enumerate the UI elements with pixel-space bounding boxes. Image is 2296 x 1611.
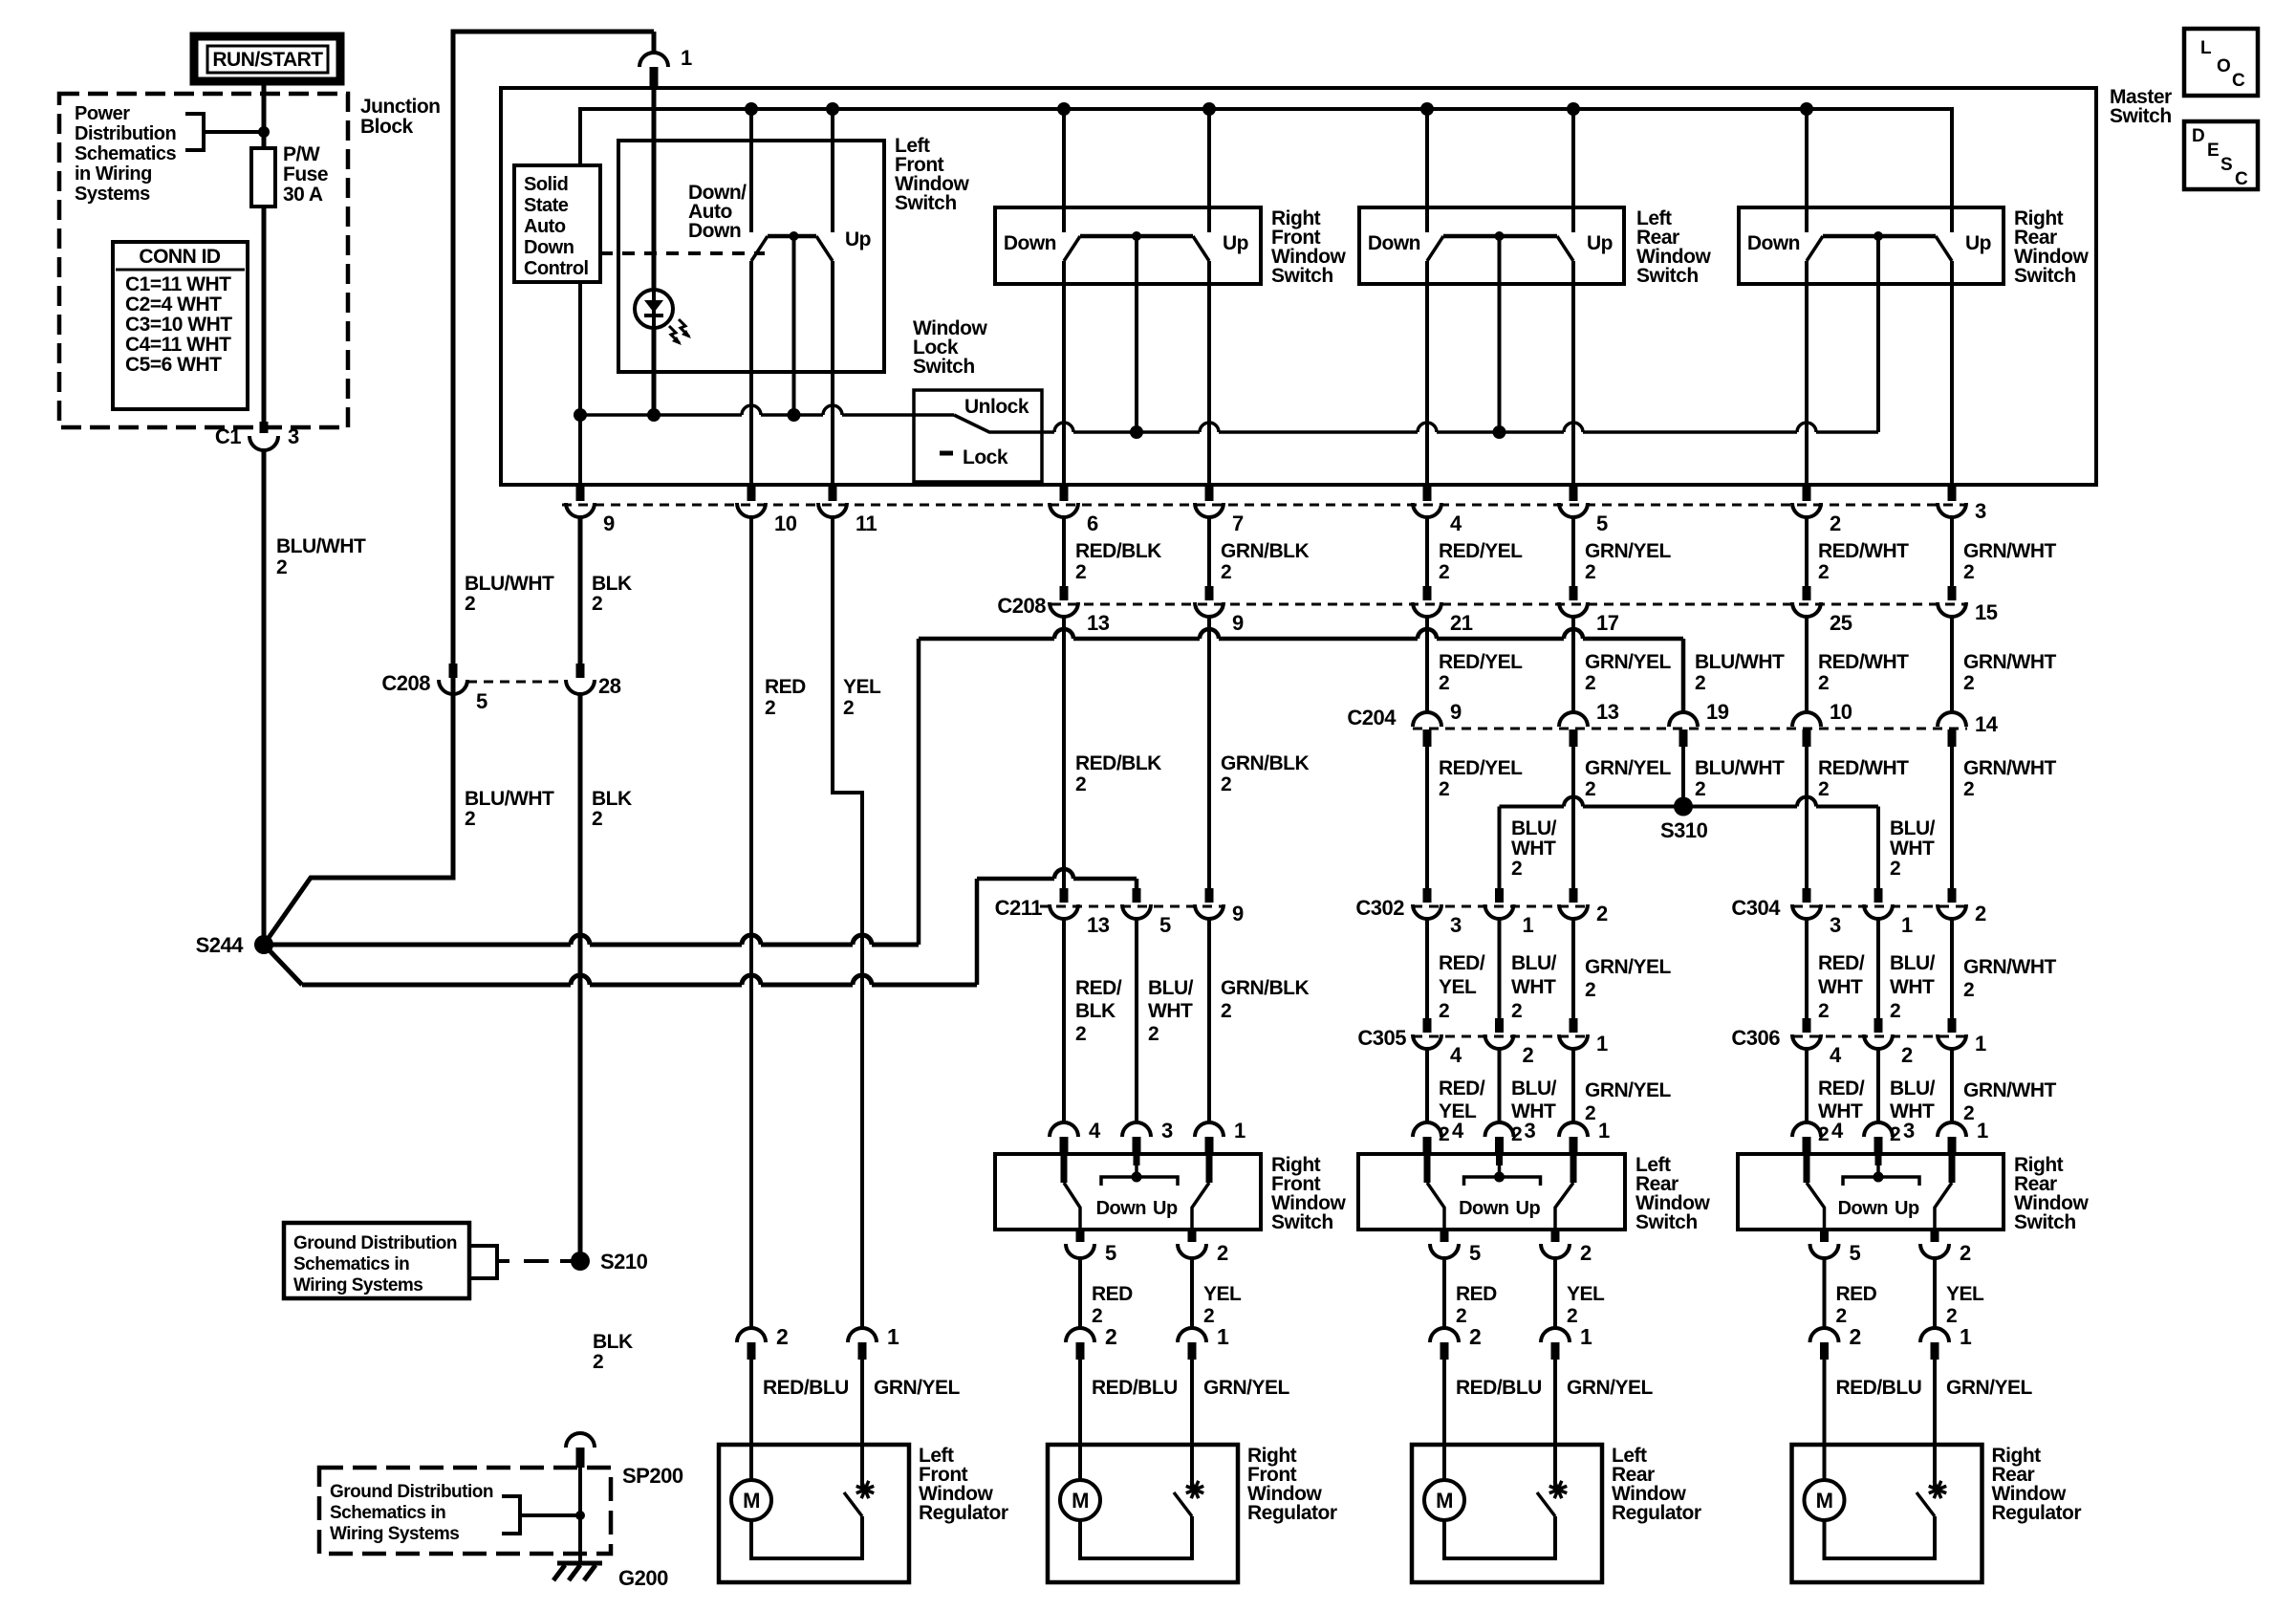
- right front regulator connector pin 2: [1066, 1328, 1094, 1342]
- svg-text:RED/BLU: RED/BLU: [1092, 1377, 1178, 1399]
- wire to C208: [1571, 516, 1575, 586]
- svg-text:2: 2: [765, 697, 775, 719]
- svg-text:2: 2: [592, 808, 602, 830]
- wire BLU/WHT C208-5 to S244: [451, 693, 456, 878]
- right front window regulator box: [1048, 1445, 1238, 1582]
- wire RED/BLK C208-13 to C211-13: [1062, 616, 1066, 888]
- svg-text:2: 2: [1221, 1000, 1231, 1022]
- svg-text:2: 2: [1439, 778, 1449, 800]
- svg-text:GRN/YEL: GRN/YEL: [1585, 651, 1672, 673]
- svg-text:C3=10 WHT: C3=10 WHT: [125, 314, 232, 336]
- wire between C302/C304 and C305/C306: [1425, 918, 1429, 1018]
- svg-text:M: M: [1436, 1489, 1453, 1513]
- svg-text:RED: RED: [765, 676, 806, 698]
- wire GRN/BLK C208-9 to C211-9: [1207, 616, 1211, 888]
- right rear window switch common bracket: [1875, 1154, 1882, 1165]
- svg-text:S210: S210: [600, 1250, 648, 1274]
- svg-text:2: 2: [1901, 1043, 1913, 1067]
- window lock switch lock contact: [940, 451, 953, 456]
- wire S310 splice bus: [1500, 805, 1565, 809]
- connector C204: [1413, 728, 1967, 730]
- left rear window switch down blade: [1424, 1154, 1431, 1183]
- svg-text:GRN/YEL: GRN/YEL: [1567, 1377, 1654, 1399]
- wire GRN/YEL C208-17 to C204-13: [1571, 616, 1575, 712]
- svg-text:Down: Down: [1747, 232, 1800, 254]
- wire RED 2: [1823, 1257, 1827, 1330]
- junction node on fuse feed: [258, 126, 270, 138]
- right rear regulator motor feed: [1823, 1360, 1827, 1480]
- svg-text:Schematics: Schematics: [75, 143, 177, 164]
- svg-text:C302: C302: [1355, 896, 1404, 920]
- svg-text:Down: Down: [1004, 232, 1056, 254]
- svg-text:C4=11 WHT: C4=11 WHT: [125, 334, 231, 356]
- wire RUN/START to fuse: [262, 81, 267, 150]
- svg-text:S: S: [2220, 155, 2232, 175]
- left rear window switch box: [1359, 207, 1624, 284]
- LED emission arrows: [669, 326, 680, 343]
- left rear window switch common bracket: [1496, 1154, 1503, 1165]
- master switch pin 6: [1060, 485, 1069, 501]
- svg-text:Down: Down: [1459, 1198, 1508, 1219]
- master switch box: [501, 88, 2096, 485]
- svg-text:2: 2: [1511, 858, 1522, 880]
- ground distribution dashed box: [319, 1468, 611, 1554]
- svg-text:1: 1: [1596, 1032, 1608, 1056]
- svg-text:1: 1: [1901, 913, 1913, 937]
- svg-text:C1: C1: [215, 425, 241, 448]
- right front window switch connector pin 3: [1135, 918, 1138, 1123]
- svg-text:5: 5: [1159, 913, 1171, 937]
- svg-text:17: 17: [1596, 611, 1619, 635]
- svg-text:2: 2: [1585, 672, 1595, 694]
- master switch pin 10: [747, 485, 756, 501]
- svg-text:2: 2: [1963, 979, 1974, 1001]
- wire BLU/WHT C204-19 to S310: [1681, 747, 1685, 807]
- svg-text:Lock: Lock: [963, 446, 1008, 468]
- left front window switch rocker: [745, 102, 758, 116]
- connector SP200: [566, 1433, 595, 1448]
- svg-text:C208: C208: [381, 671, 430, 695]
- left rear window switch connector pin 4: [1425, 1048, 1429, 1123]
- svg-text:C304: C304: [1731, 896, 1781, 920]
- svg-text:2: 2: [593, 1351, 603, 1373]
- svg-text:2: 2: [1960, 1241, 1971, 1265]
- wire to C208: [1805, 516, 1809, 586]
- svg-text:2: 2: [1963, 1102, 1974, 1124]
- wire GRN/YEL C204-13 down to C302-2: [1571, 747, 1575, 888]
- connector C304: [1793, 905, 1965, 908]
- svg-text:1: 1: [887, 1324, 899, 1349]
- svg-text:2: 2: [1567, 1305, 1577, 1327]
- svg-text:GRN/BLK: GRN/BLK: [1221, 540, 1309, 562]
- svg-text:GRN/YEL: GRN/YEL: [1585, 757, 1672, 779]
- right front regulator connector pin 1: [1178, 1328, 1206, 1342]
- svg-text:7: 7: [1232, 512, 1244, 535]
- svg-text:2: 2: [1818, 1000, 1829, 1022]
- svg-text:2: 2: [1596, 902, 1608, 925]
- svg-text:RED/: RED/: [1439, 952, 1485, 974]
- svg-text:Switch: Switch: [2014, 265, 2076, 287]
- connector table CONN ID: [113, 242, 248, 409]
- svg-text:2: 2: [276, 556, 287, 578]
- svg-text:YEL: YEL: [1567, 1283, 1605, 1305]
- svg-text:in Wiring: in Wiring: [75, 163, 152, 185]
- svg-text:Control: Control: [524, 258, 589, 279]
- connector C302 pin 1: [1495, 888, 1504, 903]
- svg-text:2: 2: [1818, 778, 1829, 800]
- svg-text:Schematics in: Schematics in: [293, 1254, 409, 1274]
- svg-text:S244: S244: [196, 933, 245, 957]
- svg-text:1: 1: [1598, 1119, 1610, 1143]
- svg-text:9: 9: [1232, 902, 1244, 925]
- svg-text:5: 5: [1105, 1241, 1116, 1265]
- svg-text:Unlock: Unlock: [964, 396, 1029, 418]
- connector C208 pin 15: [1948, 586, 1957, 600]
- svg-text:2: 2: [1456, 1305, 1466, 1327]
- LOC reference box: [2184, 29, 2258, 96]
- unlock bus left segment: [574, 408, 587, 422]
- right front window switch pin 2: [1188, 1230, 1197, 1242]
- svg-text:Up: Up: [1153, 1198, 1178, 1219]
- svg-text:RED/: RED/: [1818, 952, 1865, 974]
- svg-text:3: 3: [1975, 499, 1986, 523]
- wire BLU/WHT feed to C204-19: [919, 637, 1054, 642]
- svg-text:2: 2: [1890, 858, 1900, 880]
- left rear regulator motor feed: [1442, 1360, 1446, 1480]
- right rear window switch pin 5: [1820, 1230, 1829, 1242]
- right front window switch pin 5: [1076, 1230, 1085, 1242]
- wire SP200 to G200: [578, 1468, 582, 1563]
- svg-text:RED/YEL: RED/YEL: [1439, 757, 1523, 779]
- svg-text:13: 13: [1596, 700, 1619, 724]
- svg-text:25: 25: [1830, 611, 1852, 635]
- wire BLU/WHT feed to C211-5: [977, 877, 1054, 882]
- svg-text:GRN/WHT: GRN/WHT: [1963, 540, 2056, 562]
- svg-text:YEL: YEL: [1439, 976, 1477, 998]
- svg-text:WHT: WHT: [1890, 976, 1935, 998]
- svg-text:10: 10: [774, 512, 797, 535]
- left rear window switch connector pin 1: [1571, 1048, 1575, 1123]
- svg-text:E: E: [2207, 141, 2219, 161]
- bracket from Power Distribution note to fuse feed: [185, 114, 204, 150]
- svg-text:2: 2: [1830, 512, 1841, 535]
- svg-text:2: 2: [1148, 1023, 1159, 1045]
- wire between C302/C304 and C305/C306: [1950, 918, 1954, 1018]
- DESC reference box: [2184, 121, 2258, 189]
- svg-text:C204: C204: [1347, 706, 1397, 729]
- svg-text:Down: Down: [1838, 1198, 1888, 1219]
- svg-text:RED/BLU: RED/BLU: [1456, 1377, 1542, 1399]
- svg-text:5: 5: [1469, 1241, 1481, 1265]
- svg-text:Down: Down: [688, 220, 741, 242]
- svg-text:WHT: WHT: [1148, 1000, 1193, 1022]
- svg-text:D: D: [2192, 126, 2204, 146]
- connector master switch pin 1: [652, 32, 657, 54]
- svg-text:Junction: Junction: [360, 96, 441, 118]
- connector C208 pins 5 and 28: [467, 681, 566, 684]
- svg-text:2: 2: [1695, 672, 1705, 694]
- right front window switch connector pin 1: [1207, 918, 1211, 1123]
- svg-text:1: 1: [1234, 1119, 1245, 1143]
- svg-text:28: 28: [598, 674, 621, 698]
- svg-text:Switch: Switch: [1271, 265, 1333, 287]
- connector C211 pin 9: [1205, 888, 1214, 903]
- master switch pin row dashed connector: [562, 504, 1967, 507]
- right rear window switch connector pin 1: [1950, 1048, 1954, 1123]
- left rear regulator motor: [1424, 1480, 1464, 1520]
- svg-text:13: 13: [1087, 913, 1110, 937]
- wire between C302/C304 and C305/C306: [1571, 918, 1575, 1018]
- right front regulator thermal contact star: [1186, 1481, 1203, 1498]
- svg-text:1: 1: [1217, 1324, 1229, 1349]
- right front window switch box: [995, 1154, 1261, 1230]
- svg-text:GRN/YEL: GRN/YEL: [874, 1377, 961, 1399]
- svg-text:2: 2: [1203, 1305, 1214, 1327]
- right front regulator motor return: [1080, 1516, 1192, 1558]
- wire S310 branch left to C302-1: [1498, 807, 1502, 889]
- svg-text:3: 3: [1525, 1119, 1536, 1143]
- right rear window switch down blade: [1804, 1154, 1810, 1183]
- svg-text:SP200: SP200: [622, 1464, 683, 1488]
- connector C304 pin 2: [1948, 888, 1957, 903]
- wire BLU/WHT C1 to S244: [262, 448, 267, 945]
- svg-text:RED/: RED/: [1075, 977, 1122, 999]
- connector C208 pin 21: [1423, 586, 1432, 600]
- right rear regulator thermal contact star: [1929, 1481, 1946, 1498]
- svg-text:4: 4: [1450, 1043, 1462, 1067]
- window lock switch blade: [954, 415, 1042, 432]
- left rear window switch connector pin 3: [1498, 1048, 1502, 1123]
- auto down control dashed link: [600, 251, 765, 255]
- svg-text:Ground Distribution: Ground Distribution: [330, 1482, 493, 1502]
- left front regulator motor: [731, 1480, 771, 1520]
- bracket ground box to wire: [502, 1496, 520, 1534]
- left front regulator motor feed: [749, 1360, 753, 1480]
- right front window switch down blade: [1061, 1154, 1068, 1183]
- svg-text:Regulator: Regulator: [1247, 1502, 1337, 1524]
- wire YEL 2: [1553, 1257, 1557, 1330]
- svg-text:BLU/WHT: BLU/WHT: [1695, 757, 1785, 779]
- svg-text:Up: Up: [1587, 232, 1613, 254]
- right rear window switch rocker: [1800, 102, 1813, 116]
- right front window switch common bracket: [1134, 1154, 1140, 1165]
- master switch pin 2: [1803, 485, 1811, 501]
- svg-text:2: 2: [1890, 1000, 1900, 1022]
- left rear window switch up blade: [1570, 1154, 1577, 1183]
- right rear regulator motor: [1805, 1480, 1845, 1520]
- svg-text:WHT: WHT: [1511, 976, 1556, 998]
- right front regulator motor: [1060, 1480, 1100, 1520]
- svg-text:Up: Up: [1895, 1198, 1919, 1219]
- svg-text:Switch: Switch: [1636, 265, 1699, 287]
- svg-text:O: O: [2217, 56, 2230, 76]
- svg-text:2: 2: [1963, 778, 1974, 800]
- svg-text:Regulator: Regulator: [919, 1502, 1008, 1524]
- connector C208 pin 25: [1803, 586, 1811, 600]
- svg-text:BLU/WHT: BLU/WHT: [465, 788, 554, 810]
- svg-text:3: 3: [288, 425, 299, 448]
- svg-text:P/W: P/W: [283, 143, 320, 165]
- svg-text:5: 5: [1850, 1241, 1861, 1265]
- connector C204 pin 13: [1559, 712, 1588, 727]
- connector C208 right half: [1051, 603, 1965, 606]
- svg-text:6: 6: [1087, 512, 1098, 535]
- svg-text:L: L: [2200, 38, 2212, 58]
- right rear regulator connector pin 1: [1920, 1328, 1949, 1342]
- connector C208 pin 9: [1205, 586, 1214, 600]
- svg-text:RED/WHT: RED/WHT: [1818, 540, 1909, 562]
- connector C304 pin 3: [1803, 888, 1811, 903]
- wire BLU/WHT loop upper: [451, 32, 456, 664]
- splice S210: [571, 1252, 590, 1271]
- svg-text:BLU/: BLU/: [1890, 1078, 1936, 1099]
- svg-text:Distribution: Distribution: [75, 123, 176, 144]
- svg-text:2: 2: [1585, 778, 1595, 800]
- svg-text:Switch: Switch: [1635, 1211, 1698, 1233]
- svg-text:State: State: [524, 195, 569, 216]
- svg-text:BLU/WHT: BLU/WHT: [1695, 651, 1785, 673]
- svg-text:Power: Power: [75, 103, 130, 124]
- svg-text:1: 1: [1580, 1324, 1592, 1349]
- wire to C208: [1425, 516, 1429, 586]
- svg-text:2: 2: [1469, 1324, 1481, 1349]
- svg-text:5: 5: [476, 689, 487, 713]
- svg-text:2: 2: [1580, 1241, 1592, 1265]
- connector C204 pin 10: [1792, 712, 1821, 727]
- right front window switch rocker: [1057, 102, 1071, 116]
- svg-text:S310: S310: [1660, 818, 1708, 842]
- svg-text:2: 2: [1221, 561, 1231, 583]
- svg-text:G200: G200: [618, 1566, 668, 1590]
- svg-text:BLU/: BLU/: [1511, 817, 1557, 839]
- svg-text:GRN/YEL: GRN/YEL: [1585, 956, 1672, 978]
- left front regulator connector pin 2: [737, 1328, 766, 1342]
- connector C305: [1413, 1035, 1588, 1038]
- svg-text:GRN/YEL: GRN/YEL: [1585, 1079, 1672, 1101]
- S244 branch lower horizontal: [264, 945, 302, 985]
- right rear regulator motor return: [1825, 1516, 1936, 1558]
- LED indicator: [635, 290, 673, 328]
- svg-text:2: 2: [1946, 1305, 1957, 1327]
- wire RED 2: [1442, 1257, 1446, 1330]
- junction block dashed box: [59, 94, 348, 427]
- svg-text:Up: Up: [1516, 1198, 1541, 1219]
- bracket ground note to S210: [469, 1246, 497, 1278]
- svg-text:BLU/: BLU/: [1890, 952, 1936, 974]
- svg-text:BLU/: BLU/: [1890, 817, 1936, 839]
- svg-text:Block: Block: [360, 116, 414, 138]
- svg-text:C305: C305: [1357, 1026, 1406, 1050]
- svg-text:2: 2: [1075, 773, 1086, 795]
- svg-text:GRN/WHT: GRN/WHT: [1963, 651, 2056, 673]
- wire GRN/WHT C208-15 to C204-14: [1950, 616, 1954, 712]
- svg-text:GRN/YEL: GRN/YEL: [1946, 1377, 2033, 1399]
- svg-text:2: 2: [1695, 778, 1705, 800]
- connector C305 pin 2: [1495, 1018, 1504, 1033]
- svg-text:2: 2: [1963, 561, 1974, 583]
- svg-text:RED/WHT: RED/WHT: [1818, 651, 1909, 673]
- left rear window switch rocker: [1420, 102, 1434, 116]
- svg-text:RED/BLU: RED/BLU: [763, 1377, 849, 1399]
- svg-text:3: 3: [1450, 913, 1462, 937]
- splice S244: [254, 935, 273, 954]
- wire RED 2: [1078, 1257, 1082, 1330]
- master switch pin 11: [829, 485, 837, 501]
- svg-text:19: 19: [1706, 700, 1729, 724]
- right rear window switch connector pin 4: [1805, 1048, 1809, 1123]
- svg-text:9: 9: [603, 512, 615, 535]
- wire BLK pin 9 down: [578, 516, 583, 664]
- wire pin 9 vertical inside master switch: [578, 415, 582, 485]
- ground G200: [557, 1561, 602, 1566]
- svg-text:Down: Down: [524, 237, 574, 258]
- svg-text:Fuse: Fuse: [283, 163, 328, 185]
- right rear window switch connector pin 3: [1876, 1048, 1880, 1123]
- wire to C208: [1950, 516, 1954, 586]
- svg-text:2: 2: [1836, 1305, 1847, 1327]
- svg-text:2: 2: [776, 1324, 788, 1349]
- wire YEL 2: [1190, 1257, 1194, 1330]
- svg-text:2: 2: [592, 593, 602, 615]
- svg-text:4: 4: [1089, 1119, 1101, 1143]
- svg-text:YEL: YEL: [1946, 1283, 1984, 1305]
- svg-text:GRN/BLK: GRN/BLK: [1221, 977, 1309, 999]
- connector C304 pin 1: [1874, 888, 1883, 903]
- wire YEL 2: [1933, 1257, 1937, 1330]
- right rear window switch up blade: [1949, 1154, 1956, 1183]
- svg-text:1: 1: [1523, 913, 1534, 937]
- svg-text:13: 13: [1087, 611, 1110, 635]
- svg-text:4: 4: [1452, 1119, 1464, 1143]
- svg-text:BLU/WHT: BLU/WHT: [465, 573, 554, 595]
- svg-text:2: 2: [1511, 1000, 1522, 1022]
- connector C211 pin 13: [1060, 888, 1069, 903]
- svg-text:2: 2: [1585, 979, 1595, 1001]
- connector C306 pin 2: [1874, 1018, 1883, 1033]
- svg-text:Up: Up: [845, 229, 871, 250]
- svg-text:RED: RED: [1092, 1283, 1133, 1305]
- left rear regulator motor return: [1444, 1516, 1555, 1558]
- svg-text:2: 2: [1523, 1043, 1534, 1067]
- connector C204 pin 19: [1669, 712, 1698, 727]
- svg-text:C2=4 WHT: C2=4 WHT: [125, 294, 222, 316]
- svg-text:GRN/BLK: GRN/BLK: [1221, 752, 1309, 774]
- svg-text:Switch: Switch: [913, 356, 975, 378]
- right front regulator thermal switch: [1190, 1360, 1194, 1488]
- svg-text:9: 9: [1450, 700, 1462, 724]
- connector C305 pin 1: [1570, 1018, 1578, 1033]
- svg-text:BLK: BLK: [593, 1331, 633, 1353]
- svg-text:BLK: BLK: [1075, 1000, 1116, 1022]
- left front regulator connector pin 1: [848, 1328, 877, 1342]
- svg-text:1: 1: [681, 46, 692, 70]
- svg-text:RED/BLK: RED/BLK: [1075, 752, 1161, 774]
- svg-text:Regulator: Regulator: [1612, 1502, 1701, 1524]
- connector C302: [1413, 905, 1588, 908]
- connector C302 pin 3: [1423, 888, 1432, 903]
- svg-text:BLU/: BLU/: [1148, 977, 1194, 999]
- svg-text:Ground Distribution: Ground Distribution: [293, 1233, 457, 1253]
- svg-text:RUN/START: RUN/START: [212, 49, 323, 71]
- ground distribution note box: [284, 1223, 469, 1298]
- svg-text:Wiring Systems: Wiring Systems: [330, 1524, 459, 1544]
- svg-text:BLU/: BLU/: [1511, 1078, 1557, 1099]
- master switch pin 5: [1570, 485, 1578, 501]
- svg-text:10: 10: [1830, 700, 1852, 724]
- svg-text:3: 3: [1903, 1119, 1915, 1143]
- wire between C302/C304 and C305/C306: [1498, 918, 1502, 1018]
- svg-text:Switch: Switch: [2110, 105, 2172, 127]
